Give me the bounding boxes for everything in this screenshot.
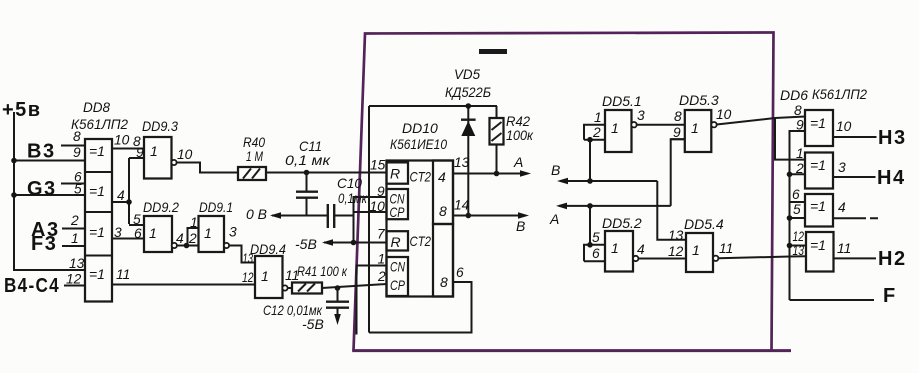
highlight box (purple marker rectangle) — [352, 33, 791, 351]
svg-text:B4-C4: B4-C4 — [4, 275, 60, 297]
node +5v supply label — [2, 99, 42, 121]
svg-text:B3: B3 — [27, 141, 56, 163]
svg-text:1: 1 — [150, 143, 158, 159]
capacitor C12 0.01uF — [263, 288, 349, 332]
svg-text:12: 12 — [668, 244, 684, 259]
svg-text:=1: =1 — [89, 224, 105, 240]
node junction A/DD5.2 tie — [587, 203, 593, 209]
svg-text:3: 3 — [838, 160, 846, 175]
svg-text:7: 7 — [377, 227, 386, 242]
net A arrow at DD5 section — [549, 203, 671, 227]
svg-text:Н4: Н4 — [877, 167, 906, 189]
svg-text:VD5: VD5 — [454, 67, 480, 82]
wire DD9.1 out3 to DD9.4 pin13 — [229, 225, 255, 267]
svg-text:0,1 мк: 0,1 мк — [285, 152, 332, 168]
wire A to DD5.3 pin9 — [671, 139, 685, 206]
resistor R40 1M — [238, 134, 266, 180]
svg-text:1: 1 — [190, 215, 198, 230]
svg-text:1: 1 — [691, 120, 699, 136]
svg-text:2: 2 — [377, 269, 386, 284]
IC DD10 K561IE10 dual counter — [378, 120, 454, 297]
wire DD10 pin6 feedback loop — [369, 265, 472, 333]
svg-text:CN: CN — [390, 259, 406, 275]
svg-text:13: 13 — [69, 256, 85, 271]
wire B3 to DD8 pin8 — [61, 145, 85, 147]
svg-text:CP: CP — [390, 204, 406, 220]
wire F3 to DD8 pin1 — [62, 245, 85, 247]
svg-text:Н3: Н3 — [878, 127, 907, 149]
wire DD5.2 out4 to DD5.4 pin12 — [637, 242, 686, 259]
wire DD8 out3 to DD9.2 pin6 — [112, 225, 144, 241]
svg-text:15: 15 — [370, 158, 386, 173]
node input B3 — [27, 141, 56, 163]
svg-text:=1: =1 — [810, 237, 826, 253]
svg-text:=1: =1 — [89, 143, 105, 159]
gate DD5.4 — [668, 216, 724, 272]
net B arrow at DD5 section — [551, 162, 657, 184]
wire A3 to DD8 pin2 — [62, 228, 85, 230]
svg-text:DD9.1: DD9.1 — [199, 199, 233, 215]
node input A3 — [31, 219, 60, 241]
svg-text:+5в: +5в — [2, 99, 42, 121]
svg-text:2: 2 — [592, 125, 601, 140]
svg-text:14: 14 — [454, 198, 470, 213]
IC DD8 K561LP2 quad XOR — [71, 99, 128, 302]
gate DD5.2 — [584, 206, 642, 272]
svg-text:8: 8 — [73, 129, 81, 144]
svg-text:11: 11 — [116, 267, 130, 282]
wire +5v vertical bus — [14, 112, 85, 270]
wire rail corner vertical / feedback to loop — [368, 106, 370, 333]
svg-text:10: 10 — [370, 199, 386, 214]
svg-text:3: 3 — [229, 225, 237, 240]
svg-text:9: 9 — [673, 125, 681, 140]
svg-text:2: 2 — [70, 213, 79, 228]
svg-text:R: R — [391, 234, 401, 250]
wire DD6 out10 to H3 — [833, 119, 907, 149]
wire F output — [790, 285, 897, 307]
svg-text:CT2: CT2 — [410, 233, 432, 249]
svg-text:В: В — [551, 162, 560, 178]
node input F3 — [31, 233, 57, 255]
wire G3 to DD8 pin6 — [61, 183, 85, 185]
svg-text:3: 3 — [637, 108, 645, 123]
svg-text:4: 4 — [838, 200, 846, 215]
svg-text:3: 3 — [114, 225, 122, 240]
svg-text:6: 6 — [456, 265, 464, 280]
gate DD9.1 — [188, 199, 233, 252]
svg-text:КД522Б: КД522Б — [445, 84, 491, 100]
resistor R41 100k — [292, 263, 348, 294]
node input B4-C4 — [4, 275, 60, 297]
svg-text:13: 13 — [668, 228, 684, 243]
node junction R40/C11 — [304, 170, 310, 176]
node junction +5v/pin9 — [11, 158, 17, 164]
wire DD9.3 out10 to R40 — [177, 147, 238, 173]
svg-text:R: R — [390, 166, 400, 182]
svg-text:DD6: DD6 — [780, 87, 808, 103]
svg-text:=1: =1 — [89, 183, 105, 199]
svg-text:6: 6 — [592, 246, 600, 261]
svg-text:12: 12 — [242, 270, 254, 285]
svg-text:4: 4 — [438, 169, 446, 185]
wire C10 to DD10 pins 9,10 — [354, 184, 387, 243]
svg-text:2: 2 — [188, 231, 197, 246]
svg-text:CT2: CT2 — [410, 169, 432, 185]
svg-text:6: 6 — [134, 226, 142, 241]
svg-text:12: 12 — [66, 272, 82, 287]
svg-text:В: В — [516, 218, 525, 234]
svg-text:100к: 100к — [506, 127, 534, 143]
gate DD5.1 — [584, 93, 642, 181]
wire B4-C4 to DD8 pin12 — [64, 285, 85, 287]
svg-text:10: 10 — [716, 107, 732, 122]
wire top rail to VD5/R42 — [369, 105, 497, 107]
wire DD8 out11 to DD9.4 pin12 — [112, 267, 255, 285]
svg-text:C10: C10 — [337, 175, 362, 191]
wire DD6 F bus (pins 9,2,5,12) — [787, 131, 805, 300]
wire R41 to DD10 pin2 — [322, 269, 387, 288]
gate DD9.3 inverter — [129, 118, 178, 179]
wire DD5.4 out11 to DD6 pin13 — [718, 241, 805, 258]
wire DD5.3 out10 to DD6 pin8 — [716, 107, 805, 125]
svg-text:=1: =1 — [89, 266, 105, 282]
svg-text:=1: =1 — [810, 198, 826, 214]
wire B to DD5.4 pin13 — [657, 181, 686, 240]
diode VD5 KD522B — [445, 67, 491, 218]
svg-text:11: 11 — [837, 241, 851, 256]
svg-text:DD5.3: DD5.3 — [679, 92, 719, 108]
DD6 pin number labels — [792, 103, 804, 258]
wire DD10 pin1 drop — [357, 266, 387, 335]
svg-text:1: 1 — [611, 240, 619, 256]
svg-text:1: 1 — [611, 120, 619, 136]
svg-text:1: 1 — [378, 252, 386, 267]
svg-text:8: 8 — [674, 109, 682, 124]
svg-text:DD5.1: DD5.1 — [602, 93, 642, 109]
node input G3 — [27, 178, 57, 200]
svg-text:6: 6 — [792, 187, 800, 202]
wire DD9.4 out11 to R41 — [285, 268, 299, 288]
svg-text:10: 10 — [836, 119, 852, 134]
svg-text:9: 9 — [377, 184, 385, 199]
node 0V arrow — [246, 206, 307, 222]
svg-text:DD8: DD8 — [83, 99, 110, 115]
svg-text:1: 1 — [261, 268, 269, 284]
capacitor C10 0.1uF — [307, 175, 369, 228]
node -5V arrow to DD10 pin7 — [295, 227, 387, 253]
svg-text:10: 10 — [114, 133, 130, 148]
node junction R41/C12 — [335, 285, 341, 291]
svg-text:4: 4 — [637, 242, 645, 257]
svg-text:F: F — [883, 285, 897, 307]
svg-text:DD9.2: DD9.2 — [143, 199, 179, 215]
svg-text:8: 8 — [794, 103, 802, 118]
svg-text:12: 12 — [793, 229, 805, 244]
svg-text:G3: G3 — [27, 178, 57, 200]
resistor R42 100k — [490, 106, 535, 176]
wire DD8 out4 to node — [112, 188, 129, 203]
svg-text:5: 5 — [793, 202, 801, 217]
wire DD8 out10 to DD9.3 pin8 — [112, 133, 144, 150]
svg-text:4: 4 — [176, 231, 184, 246]
net B output arrow from DD10 pin14 — [453, 198, 529, 235]
svg-text:1: 1 — [149, 225, 157, 241]
svg-text:5: 5 — [74, 182, 82, 197]
svg-text:11: 11 — [719, 241, 733, 256]
svg-text:Н2: Н2 — [878, 248, 907, 270]
svg-text:5: 5 — [592, 230, 600, 245]
gate DD9.4 — [242, 241, 288, 298]
capacitor C11 0.1uF — [285, 138, 332, 216]
svg-text:А: А — [513, 154, 523, 170]
svg-text:CP: CP — [390, 277, 406, 293]
wire branch to DD6 pin1 — [775, 118, 805, 160]
svg-text:4: 4 — [117, 188, 125, 203]
wire DD6 out11 to H2 — [834, 241, 907, 270]
node junction out4/DD9.1 pin1 tie — [184, 228, 199, 248]
DD8 pin number labels — [66, 129, 85, 287]
svg-text:А: А — [549, 211, 559, 227]
svg-text:-5В: -5В — [295, 236, 317, 252]
gate DD5.3 — [671, 92, 719, 152]
svg-text:DD9.3: DD9.3 — [142, 118, 178, 134]
wire DD6 out4 spare — [834, 200, 881, 218]
svg-text:DD10: DD10 — [402, 120, 438, 136]
svg-text:0 В: 0 В — [246, 206, 267, 222]
svg-text:=1: =1 — [810, 115, 826, 131]
svg-text:=1: =1 — [810, 157, 826, 173]
wire R40 to C11 node and DD10 pin15 — [266, 158, 387, 173]
svg-text:1: 1 — [204, 225, 212, 241]
svg-text:13: 13 — [454, 155, 470, 170]
svg-text:DD5.2: DD5.2 — [602, 215, 642, 231]
svg-text:9: 9 — [73, 145, 81, 160]
svg-text:1: 1 — [71, 231, 79, 246]
svg-text:1: 1 — [796, 146, 804, 161]
svg-text:1 М: 1 М — [246, 148, 263, 164]
net A output arrow from DD10 pin13 — [453, 154, 531, 177]
svg-text:DD9.4: DD9.4 — [250, 241, 286, 257]
artifact bar above R42 — [479, 49, 507, 54]
svg-text:1: 1 — [594, 110, 602, 125]
svg-text:F3: F3 — [31, 233, 57, 255]
wire DD6 out3 to H4 — [833, 160, 906, 189]
svg-text:DD5.4: DD5.4 — [684, 216, 724, 232]
svg-text:1: 1 — [692, 242, 700, 258]
svg-text:К561ИЕ10: К561ИЕ10 — [390, 136, 447, 152]
svg-text:8: 8 — [440, 274, 448, 290]
node junction B/DD5.1 tie — [587, 178, 593, 184]
svg-text:R41 100 к: R41 100 к — [297, 263, 348, 279]
svg-text:-5В: -5В — [302, 316, 324, 332]
node junction out4/DD9.3pin9/DD9.2pin5 — [126, 158, 132, 224]
node junction +5v/pin5 — [11, 192, 17, 198]
svg-text:К561ЛП2: К561ЛП2 — [812, 86, 867, 102]
wire DD9.2 out4 to DD9.1 pin2 — [176, 231, 199, 246]
svg-text:8: 8 — [439, 203, 447, 219]
IC DD6 K561LP2 quad XOR — [780, 86, 867, 272]
gate DD9.2 — [129, 199, 179, 252]
wire DD5.1 out3 to DD5.3 pin8 — [637, 108, 685, 125]
svg-text:10: 10 — [177, 147, 193, 162]
